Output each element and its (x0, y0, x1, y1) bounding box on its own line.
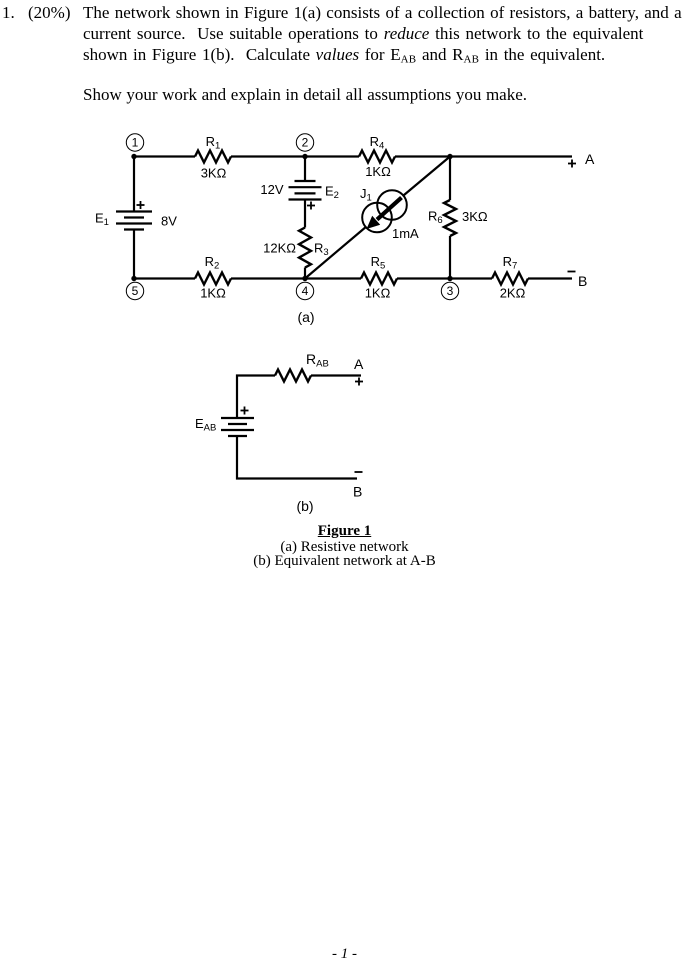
svg-text:5: 5 (132, 284, 139, 298)
terminal B (b) minus mark (355, 471, 363, 473)
polarity plus of E1 (137, 201, 145, 209)
svg-text:3: 3 (447, 284, 454, 298)
wire bottom bus: node5 to R2 (134, 277, 195, 279)
wire bottom bus: R7 to terminal B (528, 277, 572, 279)
wire bottom bus: R5 to R7 (397, 277, 492, 279)
wire R3 bottom stub to node4 (304, 268, 306, 279)
node 3 (441, 282, 458, 299)
junction dot node 1 (131, 154, 136, 159)
svg-text:1KΩ: 1KΩ (200, 286, 226, 301)
svg-text:J1: J1 (360, 186, 372, 204)
wire R6 bottom stub to node3 (449, 236, 451, 279)
junction dot node 4 (302, 276, 307, 281)
polarity plus of EAB (241, 407, 249, 415)
svg-text:R4: R4 (370, 134, 385, 152)
svg-text:2KΩ: 2KΩ (500, 286, 526, 301)
junction dot node 3 (447, 276, 452, 281)
node 5 (126, 282, 143, 299)
resistor R7 (492, 273, 528, 285)
wire top bus: node1 to R1 (134, 155, 195, 157)
svg-text:3KΩ: 3KΩ (201, 166, 227, 181)
figure caption line a (0, 540, 689, 555)
circuit drawing (0, 0, 689, 600)
svg-text:A: A (354, 356, 364, 372)
svg-text:1KΩ: 1KΩ (365, 164, 391, 179)
resistor RAB (275, 370, 311, 382)
node 2 (296, 134, 313, 151)
svg-text:E2: E2 (325, 184, 339, 202)
svg-text:R7: R7 (503, 254, 518, 272)
svg-text:4: 4 (302, 284, 309, 298)
svg-text:EAB: EAB (195, 416, 216, 434)
wire left branch lower: E1 to node5 (133, 230, 135, 279)
terminal A plus mark (568, 160, 576, 168)
junction dot node 2 (302, 154, 307, 159)
svg-text:B: B (578, 273, 587, 289)
wire diagonal: J1 to top junction (403, 157, 450, 196)
svg-text:R2: R2 (205, 254, 220, 272)
wire bottom bus: R2 to R5 (231, 277, 361, 279)
svg-text:1: 1 (132, 136, 139, 150)
wire R6 branch: top junction to R6 (449, 157, 451, 201)
wire top bus: R4 to terminal A (395, 155, 572, 157)
svg-text:R5: R5 (371, 254, 386, 272)
svg-text:B: B (353, 484, 362, 500)
wire (b) top: RAB to terminal A (311, 374, 361, 376)
svg-text:R1: R1 (206, 134, 221, 152)
svg-text:RAB: RAB (306, 351, 329, 370)
svg-text:12V: 12V (260, 182, 283, 197)
svg-text:1mA: 1mA (392, 226, 419, 241)
resistor R1 (195, 151, 231, 163)
wire left branch upper: node1 to E1 (133, 157, 135, 212)
svg-text:R6: R6 (428, 209, 443, 227)
resistor R4 (359, 151, 395, 163)
polarity plus of E2 (307, 202, 315, 210)
wire (b) top: left corner to RAB (237, 376, 275, 418)
battery E1 (116, 212, 152, 230)
problem statement (2, 2, 15, 23)
node 1 (126, 134, 143, 151)
svg-text:12KΩ: 12KΩ (263, 241, 296, 256)
junction dot node 5 (131, 276, 136, 281)
wire top bus: R1 to R4 (231, 155, 359, 157)
svg-text:R3: R3 (314, 241, 329, 259)
svg-text:(a): (a) (297, 309, 314, 325)
wire (b) left lower + bottom to terminal B (237, 437, 357, 479)
wire diagonal: node4 to J1 (305, 227, 366, 278)
node 4 (296, 282, 313, 299)
resistor R5 (361, 273, 397, 285)
battery EAB (221, 418, 254, 436)
svg-text:8V: 8V (161, 214, 177, 229)
terminal A (b) plus mark (355, 378, 363, 386)
wire E2 branch: node2 to E2 top plate (304, 157, 306, 182)
svg-text:2: 2 (302, 136, 309, 150)
wire E2 branch: E2 bottom plate to R3 (304, 200, 306, 228)
svg-text:1KΩ: 1KΩ (365, 286, 391, 301)
svg-text:3KΩ: 3KΩ (462, 209, 488, 224)
svg-text:E1: E1 (95, 211, 109, 229)
page number (0, 947, 689, 962)
figure caption line b (0, 554, 689, 569)
resistor R2 (195, 273, 231, 285)
svg-text:A: A (585, 151, 595, 167)
terminal B minus mark (568, 271, 576, 273)
svg-text:(b): (b) (296, 498, 313, 514)
resistor R3 vertical (299, 228, 311, 268)
figure caption title (0, 524, 689, 539)
junction dot top of R6 (447, 154, 452, 159)
battery E2 (289, 181, 322, 200)
current source J1 (362, 190, 407, 232)
resistor R6 vertical (444, 200, 456, 236)
